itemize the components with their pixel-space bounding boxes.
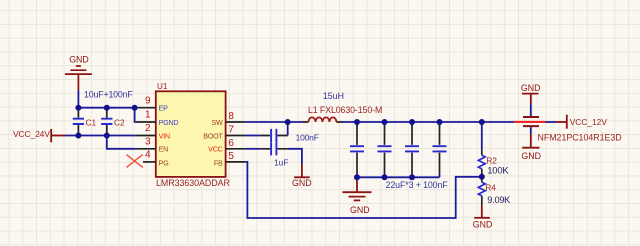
pin 2 VIN stub xyxy=(136,135,156,137)
junction FB / R2 / R4 xyxy=(479,174,485,180)
svg-text:3: 3 xyxy=(145,137,151,148)
svg-text:GND: GND xyxy=(350,205,370,215)
svg-text:GND: GND xyxy=(521,151,541,161)
svg-text:6: 6 xyxy=(228,138,234,149)
junction output rail / Cout1 xyxy=(354,119,360,125)
power port VCC_24V xyxy=(51,129,65,142)
pin 5 FB stub xyxy=(226,161,246,163)
capacitor Cout2 xyxy=(378,122,392,177)
svg-text:R4: R4 xyxy=(485,183,496,193)
svg-text:7: 7 xyxy=(228,125,234,136)
wire NFM bottom stem xyxy=(530,127,532,134)
svg-text:PGND: PGND xyxy=(159,118,179,127)
wire VCC pin to 1uF cap xyxy=(245,148,260,150)
pin 6 VCC stub xyxy=(226,148,246,150)
svg-text:EP: EP xyxy=(159,104,169,113)
svg-text:U1: U1 xyxy=(157,82,168,91)
ground GND3 bar style xyxy=(294,164,310,177)
ground GND6 below NFM xyxy=(522,134,539,148)
svg-text:2: 2 xyxy=(145,123,151,134)
junction bottom rail / GND2 xyxy=(354,174,360,180)
svg-text:NFM21PC104R1E3D: NFM21PC104R1E3D xyxy=(538,133,622,143)
svg-text:100nF: 100nF xyxy=(296,133,319,143)
svg-text:C1: C1 xyxy=(86,117,97,127)
svg-text:15uH: 15uH xyxy=(323,91,344,101)
capacitor Cout3 xyxy=(405,122,419,177)
wire GND1 stem to input rail xyxy=(77,91,79,108)
svg-text:GND: GND xyxy=(69,54,89,64)
junction SW rail / boot cap xyxy=(285,119,291,125)
svg-text:10uF+100nF: 10uF+100nF xyxy=(84,89,133,99)
svg-text:LMR33630ADDAR: LMR33630ADDAR xyxy=(156,178,230,188)
wire FB route xyxy=(245,162,482,218)
svg-text:VCC: VCC xyxy=(208,145,222,154)
wire GND2 stem blue part xyxy=(356,177,358,180)
svg-text:SW: SW xyxy=(212,118,224,127)
junction dots xyxy=(75,105,484,181)
svg-text:9: 9 xyxy=(145,96,151,107)
capacitor Cout1 xyxy=(350,122,364,177)
svg-text:1: 1 xyxy=(145,110,151,121)
capacitor Cout4 xyxy=(433,122,447,177)
junction output rail / Cout4 xyxy=(437,119,443,125)
svg-text:C2: C2 xyxy=(114,117,125,127)
ground GND2 earth style xyxy=(343,181,372,201)
svg-text:L1 FXL0630-150-M: L1 FXL0630-150-M xyxy=(308,105,382,115)
svg-text:VIN: VIN xyxy=(159,131,170,140)
power port VCC_12V xyxy=(556,115,567,129)
IC U1 body xyxy=(156,91,226,177)
junction VIN rail / C1 xyxy=(75,133,81,139)
svg-text:GND: GND xyxy=(292,178,312,188)
pin 8 SW stub xyxy=(226,121,246,123)
wire BOOT pin to boot cap xyxy=(245,135,260,137)
capacitor 1uF xyxy=(260,142,288,155)
svg-text:VCC_12V: VCC_12V xyxy=(570,117,608,127)
capacitor C2 xyxy=(101,108,112,136)
filter FL1 NFM21PC104R1E3D feed-through capacitor xyxy=(514,117,546,126)
junction EP/PGND branch xyxy=(132,105,138,111)
ground GND1 top-left power ground symbol xyxy=(65,66,92,91)
wire NFM top stem xyxy=(530,104,532,117)
svg-text:FB: FB xyxy=(214,159,223,168)
svg-text:9.09K: 9.09K xyxy=(487,195,511,205)
wire 1uF to GND3 xyxy=(288,149,302,164)
svg-text:GND: GND xyxy=(473,220,493,230)
svg-text:100K: 100K xyxy=(487,165,509,176)
wire boot cap up to SW rail xyxy=(287,122,289,136)
wire PGND branch xyxy=(135,108,136,122)
no-connect X on pin 4 xyxy=(127,155,143,168)
wire output caps bottom rail xyxy=(357,176,440,178)
junction output rail / Cout3 xyxy=(409,119,415,125)
svg-text:EN: EN xyxy=(159,145,169,154)
wire NFM to VCC_12V xyxy=(546,121,556,123)
svg-text:GND: GND xyxy=(521,83,541,93)
junction input gnd rail / C1 xyxy=(75,105,81,111)
resistor R2 xyxy=(478,149,485,174)
capacitor C1 xyxy=(73,108,84,136)
junction bottom rail / Cout2 xyxy=(382,174,388,180)
inductor L1 xyxy=(302,117,343,122)
wire SW rail to inductor xyxy=(245,121,302,123)
svg-text:8: 8 xyxy=(228,111,234,122)
svg-text:22uF*3 + 100nF: 22uF*3 + 100nF xyxy=(386,180,449,190)
wire R2 top xyxy=(481,122,483,149)
wire EN branch xyxy=(107,136,136,149)
junction VIN rail / C2 / EN xyxy=(104,133,110,139)
svg-text:4: 4 xyxy=(145,150,151,161)
svg-text:PG: PG xyxy=(159,159,170,168)
svg-text:1uF: 1uF xyxy=(274,158,288,168)
junction input gnd rail / C2 xyxy=(104,105,110,111)
svg-text:VCC_24V: VCC_24V xyxy=(13,129,50,139)
wire VCC_24V to VIN rail xyxy=(65,135,136,137)
svg-text:BOOT: BOOT xyxy=(203,131,223,140)
junction bottom rail / Cout3 xyxy=(409,174,415,180)
svg-text:5: 5 xyxy=(228,151,234,162)
capacitor 100nF boot xyxy=(260,129,287,142)
pin 7 BOOT stub xyxy=(226,135,246,137)
pin 1 PGND stub xyxy=(136,121,156,123)
wire input gnd rail xyxy=(78,107,135,109)
pin 4 PG stub xyxy=(143,161,156,163)
resistor R4 xyxy=(478,177,485,206)
ground GND5 above NFM xyxy=(522,94,539,104)
wire output rail xyxy=(343,121,514,123)
pin 3 EN stub xyxy=(136,148,156,150)
junction output rail / Cout2 xyxy=(382,119,388,125)
pin 9 EP stub xyxy=(136,107,156,109)
ground GND4 bar style below R4 xyxy=(474,206,490,218)
junction output rail / R2 xyxy=(479,119,485,125)
